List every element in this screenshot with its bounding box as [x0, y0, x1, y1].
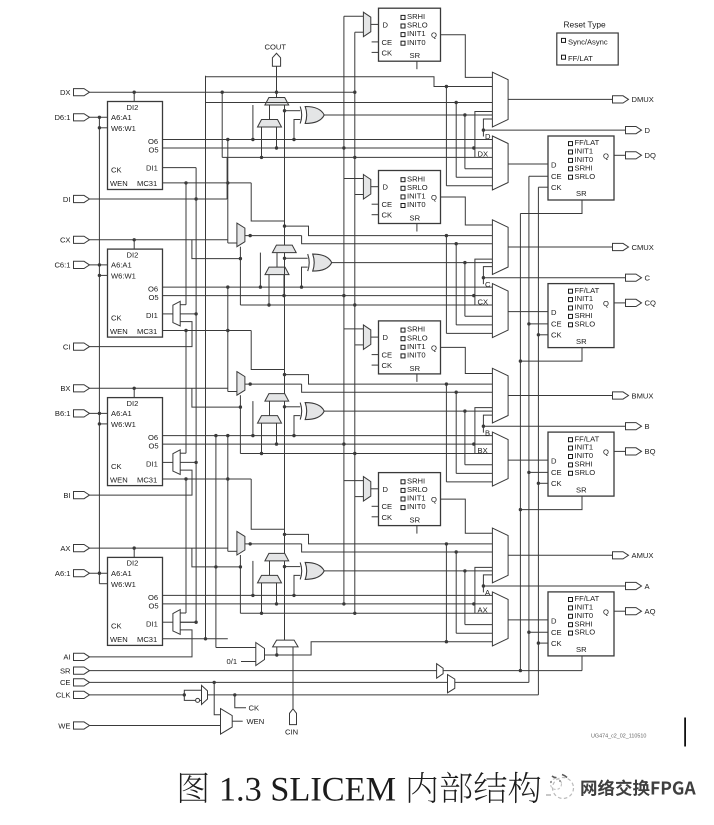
svg-text:BI: BI	[63, 491, 70, 500]
svg-text:SRLO: SRLO	[575, 319, 596, 328]
svg-text:CK: CK	[382, 361, 393, 370]
svg-text:CK: CK	[551, 639, 562, 648]
svg-text:MC31: MC31	[137, 635, 157, 644]
svg-text:DI2: DI2	[127, 559, 139, 568]
svg-text:AX: AX	[60, 544, 70, 553]
svg-text:CE: CE	[382, 200, 393, 209]
svg-text:B6:1: B6:1	[55, 409, 71, 418]
svg-text:Reset Type: Reset Type	[564, 20, 607, 30]
svg-text:DI1: DI1	[146, 311, 158, 320]
svg-text:Q: Q	[603, 299, 609, 308]
svg-text:DQ: DQ	[645, 151, 656, 160]
svg-text:O5: O5	[149, 442, 159, 451]
svg-text:CK: CK	[382, 48, 393, 57]
svg-text:SR: SR	[410, 516, 421, 525]
svg-text:CE: CE	[382, 38, 393, 47]
svg-text:BX: BX	[478, 446, 488, 455]
svg-text:BMUX: BMUX	[632, 391, 654, 400]
svg-text:BQ: BQ	[645, 447, 656, 456]
svg-text:A6:1: A6:1	[55, 569, 71, 578]
svg-text:FF/LAT: FF/LAT	[568, 54, 593, 63]
svg-text:CE: CE	[551, 172, 562, 181]
svg-text:DI2: DI2	[127, 250, 139, 259]
svg-text:D: D	[383, 20, 389, 29]
svg-text:CIN: CIN	[285, 728, 298, 737]
svg-text:Q: Q	[431, 343, 437, 352]
svg-text:0/1: 0/1	[227, 657, 238, 666]
svg-text:UG474_c2_02_110510: UG474_c2_02_110510	[591, 734, 646, 740]
svg-text:Q: Q	[603, 448, 609, 457]
svg-text:CMUX: CMUX	[632, 243, 654, 252]
svg-text:AQ: AQ	[645, 607, 656, 616]
svg-text:SR: SR	[410, 364, 421, 373]
svg-text:CE: CE	[551, 628, 562, 637]
svg-text:SR: SR	[410, 51, 421, 60]
svg-text:AMUX: AMUX	[632, 551, 654, 560]
svg-text:WEN: WEN	[110, 179, 128, 188]
svg-text:CLK: CLK	[56, 691, 71, 700]
svg-text:CQ: CQ	[645, 299, 656, 308]
svg-text:DI2: DI2	[127, 103, 139, 112]
svg-text:CK: CK	[551, 479, 562, 488]
svg-text:W6:W1: W6:W1	[111, 272, 136, 281]
svg-text:INIT0: INIT0	[407, 351, 426, 360]
svg-text:WEN: WEN	[110, 475, 128, 484]
svg-text:WEN: WEN	[110, 327, 128, 336]
svg-text:CE: CE	[551, 468, 562, 477]
svg-text:W6:W1: W6:W1	[111, 124, 136, 133]
svg-text:CE: CE	[551, 320, 562, 329]
svg-text:CK: CK	[111, 622, 122, 631]
svg-text:CK: CK	[382, 211, 393, 220]
svg-text:Q: Q	[603, 151, 609, 160]
svg-text:COUT: COUT	[265, 42, 287, 51]
svg-text:DMUX: DMUX	[632, 95, 654, 104]
svg-text:WE: WE	[58, 721, 70, 730]
svg-text:SRLO: SRLO	[575, 628, 596, 637]
svg-text:WEN: WEN	[247, 717, 265, 726]
svg-text:CK: CK	[111, 462, 122, 471]
svg-text:D: D	[645, 126, 651, 135]
svg-text:SR: SR	[576, 189, 587, 198]
svg-text:D: D	[383, 485, 389, 494]
svg-text:AI: AI	[63, 653, 70, 662]
svg-text:DI1: DI1	[146, 163, 158, 172]
svg-text:D6:1: D6:1	[54, 113, 70, 122]
svg-text:C6:1: C6:1	[54, 261, 70, 270]
svg-text:C: C	[485, 280, 491, 289]
svg-text:D: D	[383, 183, 389, 192]
svg-text:A6:A1: A6:A1	[111, 569, 132, 578]
svg-text:CI: CI	[63, 342, 71, 351]
svg-text:DI1: DI1	[146, 619, 158, 628]
svg-text:O5: O5	[149, 602, 159, 611]
svg-text:CK: CK	[382, 513, 393, 522]
svg-text:B: B	[485, 428, 490, 437]
svg-text:CK: CK	[551, 331, 562, 340]
svg-text:INIT0: INIT0	[407, 200, 426, 209]
svg-text:DI2: DI2	[127, 399, 139, 408]
svg-text:D: D	[551, 308, 557, 317]
svg-text:W6:W1: W6:W1	[111, 580, 136, 589]
svg-text:AX: AX	[478, 606, 488, 615]
svg-text:SR: SR	[576, 645, 587, 654]
svg-text:INIT0: INIT0	[407, 38, 426, 47]
svg-text:CK: CK	[111, 166, 122, 175]
svg-text:O5: O5	[149, 146, 159, 155]
svg-text:Sync/Async: Sync/Async	[568, 37, 608, 46]
svg-text:D: D	[551, 617, 557, 626]
svg-text:D: D	[383, 333, 389, 342]
svg-text:D: D	[485, 132, 491, 141]
svg-text:D: D	[551, 161, 557, 170]
svg-text:CK: CK	[249, 704, 260, 713]
svg-text:SR: SR	[576, 485, 587, 494]
svg-text:INIT0: INIT0	[407, 502, 426, 511]
svg-text:SRLO: SRLO	[575, 172, 596, 181]
svg-text:A6:A1: A6:A1	[111, 409, 132, 418]
svg-text:CE: CE	[382, 502, 393, 511]
svg-text:DX: DX	[60, 88, 71, 97]
svg-text:CE: CE	[382, 351, 393, 360]
svg-text:DI1: DI1	[146, 460, 158, 469]
svg-text:MC31: MC31	[137, 475, 157, 484]
svg-text:CX: CX	[60, 236, 71, 245]
svg-text:MC31: MC31	[137, 179, 157, 188]
svg-text:Q: Q	[431, 31, 437, 40]
svg-text:A6:A1: A6:A1	[111, 261, 132, 270]
svg-text:WEN: WEN	[110, 635, 128, 644]
svg-text:SR: SR	[410, 214, 421, 223]
svg-text:SR: SR	[60, 666, 71, 675]
svg-text:C: C	[645, 274, 651, 283]
svg-text:D: D	[551, 457, 557, 466]
svg-text:Q: Q	[431, 193, 437, 202]
svg-text:SR: SR	[576, 337, 587, 346]
svg-text:Q: Q	[603, 607, 609, 616]
svg-text:DI: DI	[63, 195, 71, 204]
svg-text:DX: DX	[478, 150, 489, 159]
svg-text:CX: CX	[478, 297, 489, 306]
svg-text:B: B	[645, 422, 650, 431]
svg-text:CK: CK	[551, 183, 562, 192]
svg-text:MC31: MC31	[137, 327, 157, 336]
svg-text:A6:A1: A6:A1	[111, 113, 132, 122]
svg-text:CK: CK	[111, 313, 122, 322]
svg-text:O5: O5	[149, 293, 159, 302]
svg-text:CE: CE	[60, 678, 71, 687]
svg-text:W6:W1: W6:W1	[111, 420, 136, 429]
svg-text:SRLO: SRLO	[575, 468, 596, 477]
svg-text:BX: BX	[60, 384, 70, 393]
svg-text:Q: Q	[431, 495, 437, 504]
